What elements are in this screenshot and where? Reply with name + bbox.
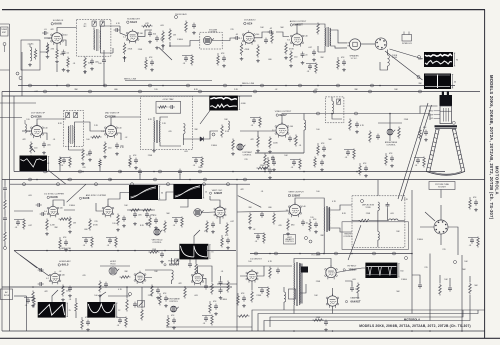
wire right vertical x462: [461, 255, 463, 331]
waveform W9 horiz parab: [87, 302, 115, 318]
capacitor N35 C: [108, 239, 112, 241]
capacitor C25: [122, 217, 126, 219]
test point t2: [19, 77, 22, 80]
test point tpC1: [4, 247, 7, 250]
svg-text:470K: 470K: [128, 48, 133, 50]
ground N3 gnd: [223, 64, 225, 66]
test point busC204: [203, 183, 206, 186]
svg-text:100: 100: [316, 191, 319, 193]
wire damper link: [332, 288, 334, 314]
capacitor N10 C: [268, 169, 272, 171]
capacitor N6 C: [252, 119, 256, 121]
wire lead to waveform W1: [390, 49, 424, 59]
test point wp2: [417, 76, 420, 79]
resistor N7 R: [317, 145, 320, 156]
coil LV2: [378, 232, 379, 241]
test point busB160: [159, 170, 162, 173]
resistor N16 R: [91, 237, 94, 248]
test point bus262: [261, 84, 264, 87]
capacitor C3b: [102, 59, 106, 61]
svg-text:0.2: 0.2: [46, 278, 49, 280]
component value labels: [22, 23, 478, 301]
test point tpB1: [317, 112, 320, 115]
ground N38 gnd: [165, 304, 167, 306]
wire to flyback: [217, 266, 292, 284]
wire V1 screen: [62, 40, 66, 46]
capacitor C34: [39, 268, 41, 272]
svg-text:1M: 1M: [73, 222, 76, 224]
test point tpD3: [454, 261, 457, 264]
ground gnd L1: [29, 63, 31, 65]
test point ant: [3, 43, 6, 46]
svg-text:.047: .047: [34, 91, 38, 93]
test point busC24: [23, 183, 26, 186]
ground N24 gnd: [475, 208, 477, 210]
resistor R44: [249, 213, 252, 225]
svg-text:140: 140: [304, 36, 307, 38]
capacitor N21 C: [118, 319, 122, 321]
ground gnd R51: [99, 294, 101, 296]
ground gnd C12: [313, 58, 315, 60]
capacitor C16: [170, 105, 172, 109]
trimmer T1 pri adj: [92, 21, 96, 26]
resistor R37: [117, 214, 120, 226]
capacitor C19: [376, 135, 380, 137]
ground gnd R8: [162, 44, 164, 46]
resistor R11: [240, 43, 243, 56]
tube V5 1st video IF: [32, 126, 43, 137]
wire CRT anode diagonal 1: [398, 103, 428, 199]
coil L3 grid coil: [25, 124, 27, 133]
wire T3 gnd drop: [69, 143, 84, 150]
svg-text:1.2: 1.2: [48, 38, 51, 40]
svg-text:680: 680: [268, 207, 271, 209]
test point busB230: [29, 178, 32, 181]
svg-text:.01: .01: [61, 165, 64, 167]
wire diag grid line: [14, 251, 37, 269]
wire det in: [120, 26, 127, 36]
wire left feed 2: [0, 117, 22, 119]
ground N15 gnd: [161, 260, 163, 262]
svg-text:6C4: 6C4: [247, 21, 253, 25]
svg-text:.01: .01: [73, 63, 76, 65]
ground gnd C36: [69, 294, 71, 296]
coil L8 stabilizer: [172, 270, 174, 280]
label V9 tube type: [79, 197, 81, 199]
ground N1 gnd: [151, 68, 153, 70]
shield can deflection yoke: [352, 196, 405, 248]
capacitor C28: [211, 223, 215, 225]
svg-text:HOLD: HOLD: [110, 263, 116, 265]
resistor N34 R: [59, 239, 62, 250]
svg-text:120K: 120K: [152, 249, 157, 251]
wire afc link: [100, 265, 130, 267]
CRT funnel right side: [456, 129, 465, 171]
capacitor C39: [204, 285, 208, 287]
CRT anode lead stubs: [442, 91, 444, 95]
svg-text:100: 100: [94, 295, 97, 297]
resistor N26 R: [69, 157, 72, 168]
capacitor C8: [235, 36, 237, 40]
wire bottom ground bus: [2, 330, 485, 332]
svg-text:140: 140: [290, 126, 293, 128]
coil L1 input: [30, 47, 32, 61]
test point busC2276: [275, 252, 278, 255]
ground gnd V4k: [290, 64, 292, 66]
wire vol to audio: [212, 38, 236, 41]
ground gnd C18b: [321, 168, 323, 170]
test point bus188: [187, 84, 190, 87]
resistor N10 R: [257, 167, 268, 170]
potentiometer vert hold control: [154, 229, 160, 235]
capacitor C14: [88, 151, 92, 153]
resistor R21: [158, 106, 168, 109]
svg-text:140: 140: [256, 34, 259, 36]
wire W8 lead: [52, 290, 58, 302]
waveform W7 vert saw: [179, 244, 208, 260]
wire between saw boxes: [75, 298, 77, 318]
svg-text:3.2 V.C.: 3.2 V.C.: [351, 58, 358, 60]
resistor R61: [439, 284, 442, 296]
svg-text:.01: .01: [255, 241, 258, 243]
svg-text:680: 680: [242, 103, 245, 105]
test point bus225: [224, 84, 227, 87]
wire W3 to sync diagonal: [48, 170, 66, 184]
resistor R66: [75, 302, 78, 313]
svg-text:680: 680: [268, 59, 271, 61]
capacitor N24 C: [474, 201, 478, 203]
svg-text:.005: .005: [352, 279, 356, 281]
svg-text:470: 470: [314, 89, 317, 91]
svg-text:.02: .02: [47, 163, 50, 165]
resistor R43: [195, 263, 198, 275]
trimmer T5 adj: [337, 99, 341, 104]
svg-text:.01: .01: [345, 157, 348, 159]
ground N27 gnd: [135, 166, 137, 168]
svg-text:.01: .01: [299, 145, 302, 147]
waveform W4 video det: [209, 96, 238, 111]
wire AGC bus band A: [2, 95, 252, 97]
resistor R41: [206, 221, 209, 233]
wire V6 plate: [111, 117, 140, 126]
test point tpD1: [129, 293, 132, 296]
resistor N40 R: [81, 319, 84, 330]
svg-text:.01: .01: [183, 63, 186, 65]
test point bus300: [299, 84, 302, 87]
wire HO plate: [306, 259, 331, 268]
CRT yoke bar: [435, 125, 458, 127]
wire V7 grid: [240, 131, 276, 137]
svg-text:PHONO JACK: PHONO JACK: [175, 13, 187, 16]
capacitor N37 C: [174, 219, 178, 221]
svg-text:CONTROL: CONTROL: [386, 145, 395, 147]
tube V16 damper: [327, 296, 337, 306]
resistor R45: [273, 213, 276, 225]
capacitor C12: [312, 51, 316, 53]
resistor N6 R: [259, 117, 262, 128]
svg-text:1.1: 1.1: [239, 38, 242, 40]
wire det diode: [183, 134, 200, 145]
resistor R36: [89, 219, 92, 231]
CRT funnel left side: [426, 129, 436, 171]
capacitor C1: [44, 31, 46, 35]
resistor R29: [398, 127, 401, 139]
wire below W7: [190, 259, 196, 262]
svg-text:SOCKET: SOCKET: [438, 187, 447, 189]
resistor R57: [141, 309, 144, 321]
svg-text:CONTROL: CONTROL: [152, 242, 161, 244]
svg-text:.01: .01: [415, 165, 418, 167]
capacitor C23: [37, 203, 39, 207]
test point bus338: [337, 84, 340, 87]
resistor N4 R: [315, 63, 318, 74]
svg-text:6AU8: 6AU8: [83, 196, 90, 200]
resistor N13 R: [263, 233, 266, 244]
ground N20 gnd: [173, 326, 175, 328]
trimmer T1 sec adj: [100, 21, 104, 26]
resistor N18 R: [267, 287, 270, 298]
svg-text:70: 70: [211, 252, 213, 254]
svg-text:1 MEG: 1 MEG: [221, 299, 227, 301]
coil LH1: [389, 219, 399, 221]
coil L9 width: [284, 292, 286, 302]
svg-text:140: 140: [44, 127, 47, 129]
ground N5 gnd: [343, 68, 345, 70]
resistor R51: [99, 281, 102, 293]
resistor R42: [226, 223, 229, 235]
svg-text:CONTROL: CONTROL: [208, 32, 217, 34]
capacitor N26 C: [62, 159, 66, 161]
resistor R52: [120, 276, 131, 279]
capacitor N11 C: [16, 221, 20, 223]
wire grid feed band C: [14, 210, 33, 212]
resistor R54: [184, 287, 187, 299]
resistor R53: [151, 285, 154, 297]
svg-text:470: 470: [278, 225, 281, 227]
flyback dense winding: [299, 264, 303, 303]
speaker SP1 speaker: [349, 39, 360, 50]
resistor R56: [126, 299, 129, 312]
resistor R38: [130, 209, 141, 212]
capacitor N19 C: [324, 321, 328, 323]
wire tuner to sound IF: [40, 44, 48, 52]
resistor N1 R: [145, 59, 148, 70]
wire yoke diag down: [348, 225, 361, 260]
wire left risers band C: [4, 180, 6, 247]
wire det out: [138, 30, 152, 36]
wire yoke top feed: [377, 180, 379, 196]
resistor N21 R: [125, 317, 128, 328]
svg-text:.005: .005: [160, 25, 164, 27]
svg-text:270: 270: [244, 159, 247, 161]
tube V2 sound det: [127, 31, 138, 42]
test point busB120: [119, 170, 122, 173]
svg-text:.01: .01: [107, 245, 110, 247]
svg-text:680: 680: [84, 229, 87, 231]
wire V9 out diag: [67, 184, 86, 202]
tube V3 1st audio: [243, 32, 254, 43]
transformer T3 1st IF transformer: [68, 126, 70, 143]
svg-text:.01: .01: [307, 71, 310, 73]
capacitor C15: [115, 144, 119, 146]
svg-text:270: 270: [424, 267, 427, 269]
wire V7 plate: [282, 114, 430, 125]
svg-text:CONTROL: CONTROL: [343, 236, 352, 238]
test point busC2336: [335, 252, 338, 255]
resistor R55: [211, 283, 214, 295]
ground gnd R14: [285, 56, 287, 58]
svg-text:SEE B+ LINE: SEE B+ LINE: [242, 83, 255, 85]
ground gnd R23: [232, 152, 234, 154]
capacitor N4 C: [308, 65, 312, 67]
resistor N12 R: [221, 237, 224, 248]
wire V6 screen: [117, 133, 122, 140]
resistor R23: [232, 139, 235, 151]
ground gnd C25: [123, 224, 125, 226]
wire can B+ drop: [103, 50, 105, 86]
tube V17 horiz disch: [247, 271, 257, 281]
wire T7 to yoke: [324, 205, 352, 254]
potentiometer volume control: [203, 36, 211, 44]
ground gnd R24: [257, 149, 259, 151]
ground gnd R46: [287, 232, 289, 234]
page bottom border: [0, 337, 500, 339]
transformer T1 sound IF: [93, 30, 95, 50]
ground gnd C18: [356, 130, 358, 132]
capacitor N39 C: [204, 317, 208, 319]
page right border: [484, 10, 486, 338]
svg-text:220K: 220K: [366, 213, 371, 215]
resistor R32: [4, 231, 7, 243]
capacitor C9: [264, 39, 268, 41]
capacitor N18 C: [260, 289, 264, 291]
test point busB2155: [154, 178, 157, 181]
converter box: [21, 40, 40, 70]
capacitor N20 C: [172, 319, 176, 321]
transformer T4 3rd IF transformer: [153, 121, 155, 142]
resistor N24 R: [469, 199, 472, 210]
test point busC228: [227, 183, 230, 186]
capacitor N22 C: [214, 305, 218, 307]
svg-text:.01: .01: [83, 245, 86, 247]
resistor R33: [46, 219, 49, 231]
svg-text:TUNER: TUNER: [1, 29, 8, 31]
wire brightness arm: [378, 123, 402, 141]
capacitor C32: [386, 204, 390, 206]
svg-text:90: 90: [456, 60, 458, 62]
ground gnd C27: [146, 222, 148, 224]
waveform W8 horiz saw: [38, 302, 66, 318]
wire flyback taps: [284, 259, 306, 314]
potentiometer contrast control: [237, 144, 243, 150]
svg-text:6AU8: 6AU8: [50, 195, 58, 199]
wire B+ bus band A: [18, 85, 455, 87]
svg-text:270: 270: [94, 221, 97, 223]
svg-text:120K: 120K: [260, 165, 265, 167]
capacitor C30: [260, 213, 264, 215]
resistor R64: [238, 315, 250, 318]
wire osc link: [108, 295, 130, 297]
test point busC96: [95, 183, 98, 186]
capacitor N27 C: [134, 159, 138, 161]
capacitor C18: [355, 123, 359, 125]
trimmer L8 adj: [175, 259, 179, 264]
svg-text:220K: 220K: [316, 281, 321, 283]
tube V7 video output: [276, 124, 288, 136]
test point bus105: [104, 84, 107, 87]
ground gnd T1: [84, 70, 86, 72]
wire between W5 W6: [158, 192, 173, 200]
capacitor C44: [448, 287, 452, 289]
wire det out: [204, 131, 218, 139]
wire audio coupling: [254, 32, 289, 38]
waveform W2 vert yoke: [424, 74, 451, 90]
label vert osc: [209, 192, 211, 194]
wire disch parts: [221, 266, 265, 290]
test point bus68: [67, 84, 70, 87]
resistor R62: [227, 281, 230, 293]
resistor R63: [251, 291, 254, 303]
wire CRT anode diagonal 2: [402, 105, 432, 201]
wire band D mid return: [166, 326, 252, 328]
ground N19 gnd: [325, 328, 327, 330]
svg-text:680: 680: [114, 89, 117, 91]
svg-text:100: 100: [86, 139, 89, 141]
svg-text:220K: 220K: [404, 119, 409, 121]
wire W7 lead: [194, 230, 200, 244]
wire W6 down: [180, 199, 188, 207]
svg-text:.02: .02: [253, 229, 256, 231]
wire sync band bus: [10, 183, 250, 185]
tube V10 vert osc: [215, 207, 225, 217]
svg-text:.01: .01: [15, 227, 18, 229]
svg-text:140: 140: [60, 208, 63, 210]
resistor N22 R: [209, 303, 212, 314]
resistor R22b: [99, 159, 102, 168]
capacitor C13: [42, 143, 46, 145]
svg-text:8.5: 8.5: [287, 39, 290, 41]
shield can volume control box: [200, 32, 222, 49]
capacitor C3: [90, 60, 94, 62]
svg-text:12BH7: 12BH7: [292, 193, 301, 197]
CRT funnel hatching: [436, 129, 439, 130]
svg-text:H.V. CAGE: H.V. CAGE: [312, 254, 322, 257]
CRT neck: [440, 106, 452, 124]
resistor N15 R: [149, 251, 160, 254]
capacitor C18b: [320, 161, 324, 163]
waveform W1 horiz yoke: [424, 52, 453, 67]
tube V12 horiz afc: [50, 273, 59, 282]
resistor R5: [84, 57, 87, 69]
ground gnd R37: [117, 228, 119, 230]
resistor N36 R: [149, 217, 152, 228]
wire grid line: [14, 250, 236, 252]
wire T3 out: [75, 122, 106, 131]
capacitor C20: [271, 157, 275, 159]
resistor R46: [287, 219, 290, 231]
wire V1 plate: [57, 28, 77, 32]
ground gnd C46: [220, 296, 222, 298]
ground N34 gnd: [65, 248, 67, 250]
resistor R8: [162, 31, 165, 43]
capacitor C35: [39, 282, 41, 286]
coil L2 yoke coil: [388, 55, 390, 66]
svg-text:1/2 6SN7GT: 1/2 6SN7GT: [250, 259, 262, 261]
svg-text:15: 15: [205, 192, 207, 194]
svg-text:HV RECT: HV RECT: [347, 266, 357, 268]
test point busB2110: [109, 178, 112, 181]
wire T4 wiring: [154, 117, 181, 149]
